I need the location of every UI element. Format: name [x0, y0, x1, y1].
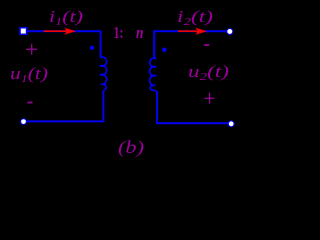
svg-text:i2(t): i2(t)	[177, 7, 213, 28]
wire top-right horizontal	[154, 30, 229, 32]
wire secondary bottom vertical	[156, 92, 158, 124]
svg-text:1:: 1:	[114, 23, 124, 42]
polarity minus secondary	[204, 44, 209, 46]
polarity plus primary	[26, 44, 37, 55]
svg-text:u2(t): u2(t)	[188, 62, 229, 83]
current arrow i2	[178, 30, 199, 32]
wire left vertical drop to primary coil	[100, 30, 102, 58]
polarity dot primary	[90, 46, 94, 50]
terminal top-left (square)	[20, 28, 27, 35]
polarity plus secondary	[205, 93, 215, 104]
inductor L1 primary winding	[101, 57, 107, 91]
svg-text:n: n	[136, 23, 144, 42]
current arrow i1	[44, 30, 69, 32]
svg-text:i1(t): i1(t)	[49, 7, 83, 28]
wire right vertical drop to secondary coil	[153, 30, 155, 57]
polarity dot secondary	[162, 48, 167, 53]
wire bottom-right horizontal	[156, 122, 230, 124]
wire primary bottom vertical	[102, 91, 104, 122]
svg-text:(b): (b)	[118, 137, 144, 157]
svg-text:u1(t): u1(t)	[10, 64, 48, 85]
terminal top-right	[227, 29, 233, 35]
polarity minus primary	[28, 102, 33, 104]
wire bottom-left horizontal	[24, 120, 105, 122]
inductor L2 secondary winding	[150, 57, 157, 92]
terminal bottom-right	[228, 121, 234, 127]
terminal bottom-left	[21, 119, 27, 125]
wire top-left horizontal	[24, 30, 101, 32]
